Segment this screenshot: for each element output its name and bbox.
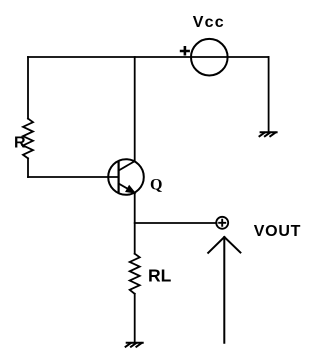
resistor R (23, 119, 33, 159)
wire right vertical (Vcc to ground) (268, 57, 270, 132)
svg-text:R: R (14, 134, 26, 151)
wire base horizontal (28, 176, 119, 178)
transistor Q emitter arrowhead (126, 186, 135, 193)
wire RL to ground (134, 294, 136, 343)
transistor Q collector line (119, 161, 135, 170)
source Vcc plus sign (180, 46, 190, 56)
svg-text:VOUT: VOUT (254, 223, 301, 240)
wire emitter vertical (134, 193, 136, 254)
source Vcc circle (191, 39, 228, 76)
wire top horizontal rail (28, 56, 269, 58)
wire left vertical upper (to resistor R) (27, 57, 29, 119)
resistor RL (130, 254, 140, 294)
terminal VOUT plus sign (218, 219, 226, 227)
transistor Q circle (108, 159, 144, 195)
transistor Q base bar (117, 162, 119, 193)
wire left vertical lower (R to base corner) (27, 158, 29, 177)
transistor Q emitter line (119, 184, 135, 193)
VOUT direction arrow (208, 237, 240, 343)
wire output horizontal (135, 222, 217, 224)
ground top right (260, 132, 277, 136)
ground bottom (126, 343, 143, 347)
svg-text:RL: RL (148, 266, 172, 286)
terminal VOUT circle (216, 217, 228, 229)
svg-text:Vcc: Vcc (193, 14, 225, 31)
wire collector vertical (134, 57, 136, 161)
svg-text:Q: Q (150, 177, 162, 194)
